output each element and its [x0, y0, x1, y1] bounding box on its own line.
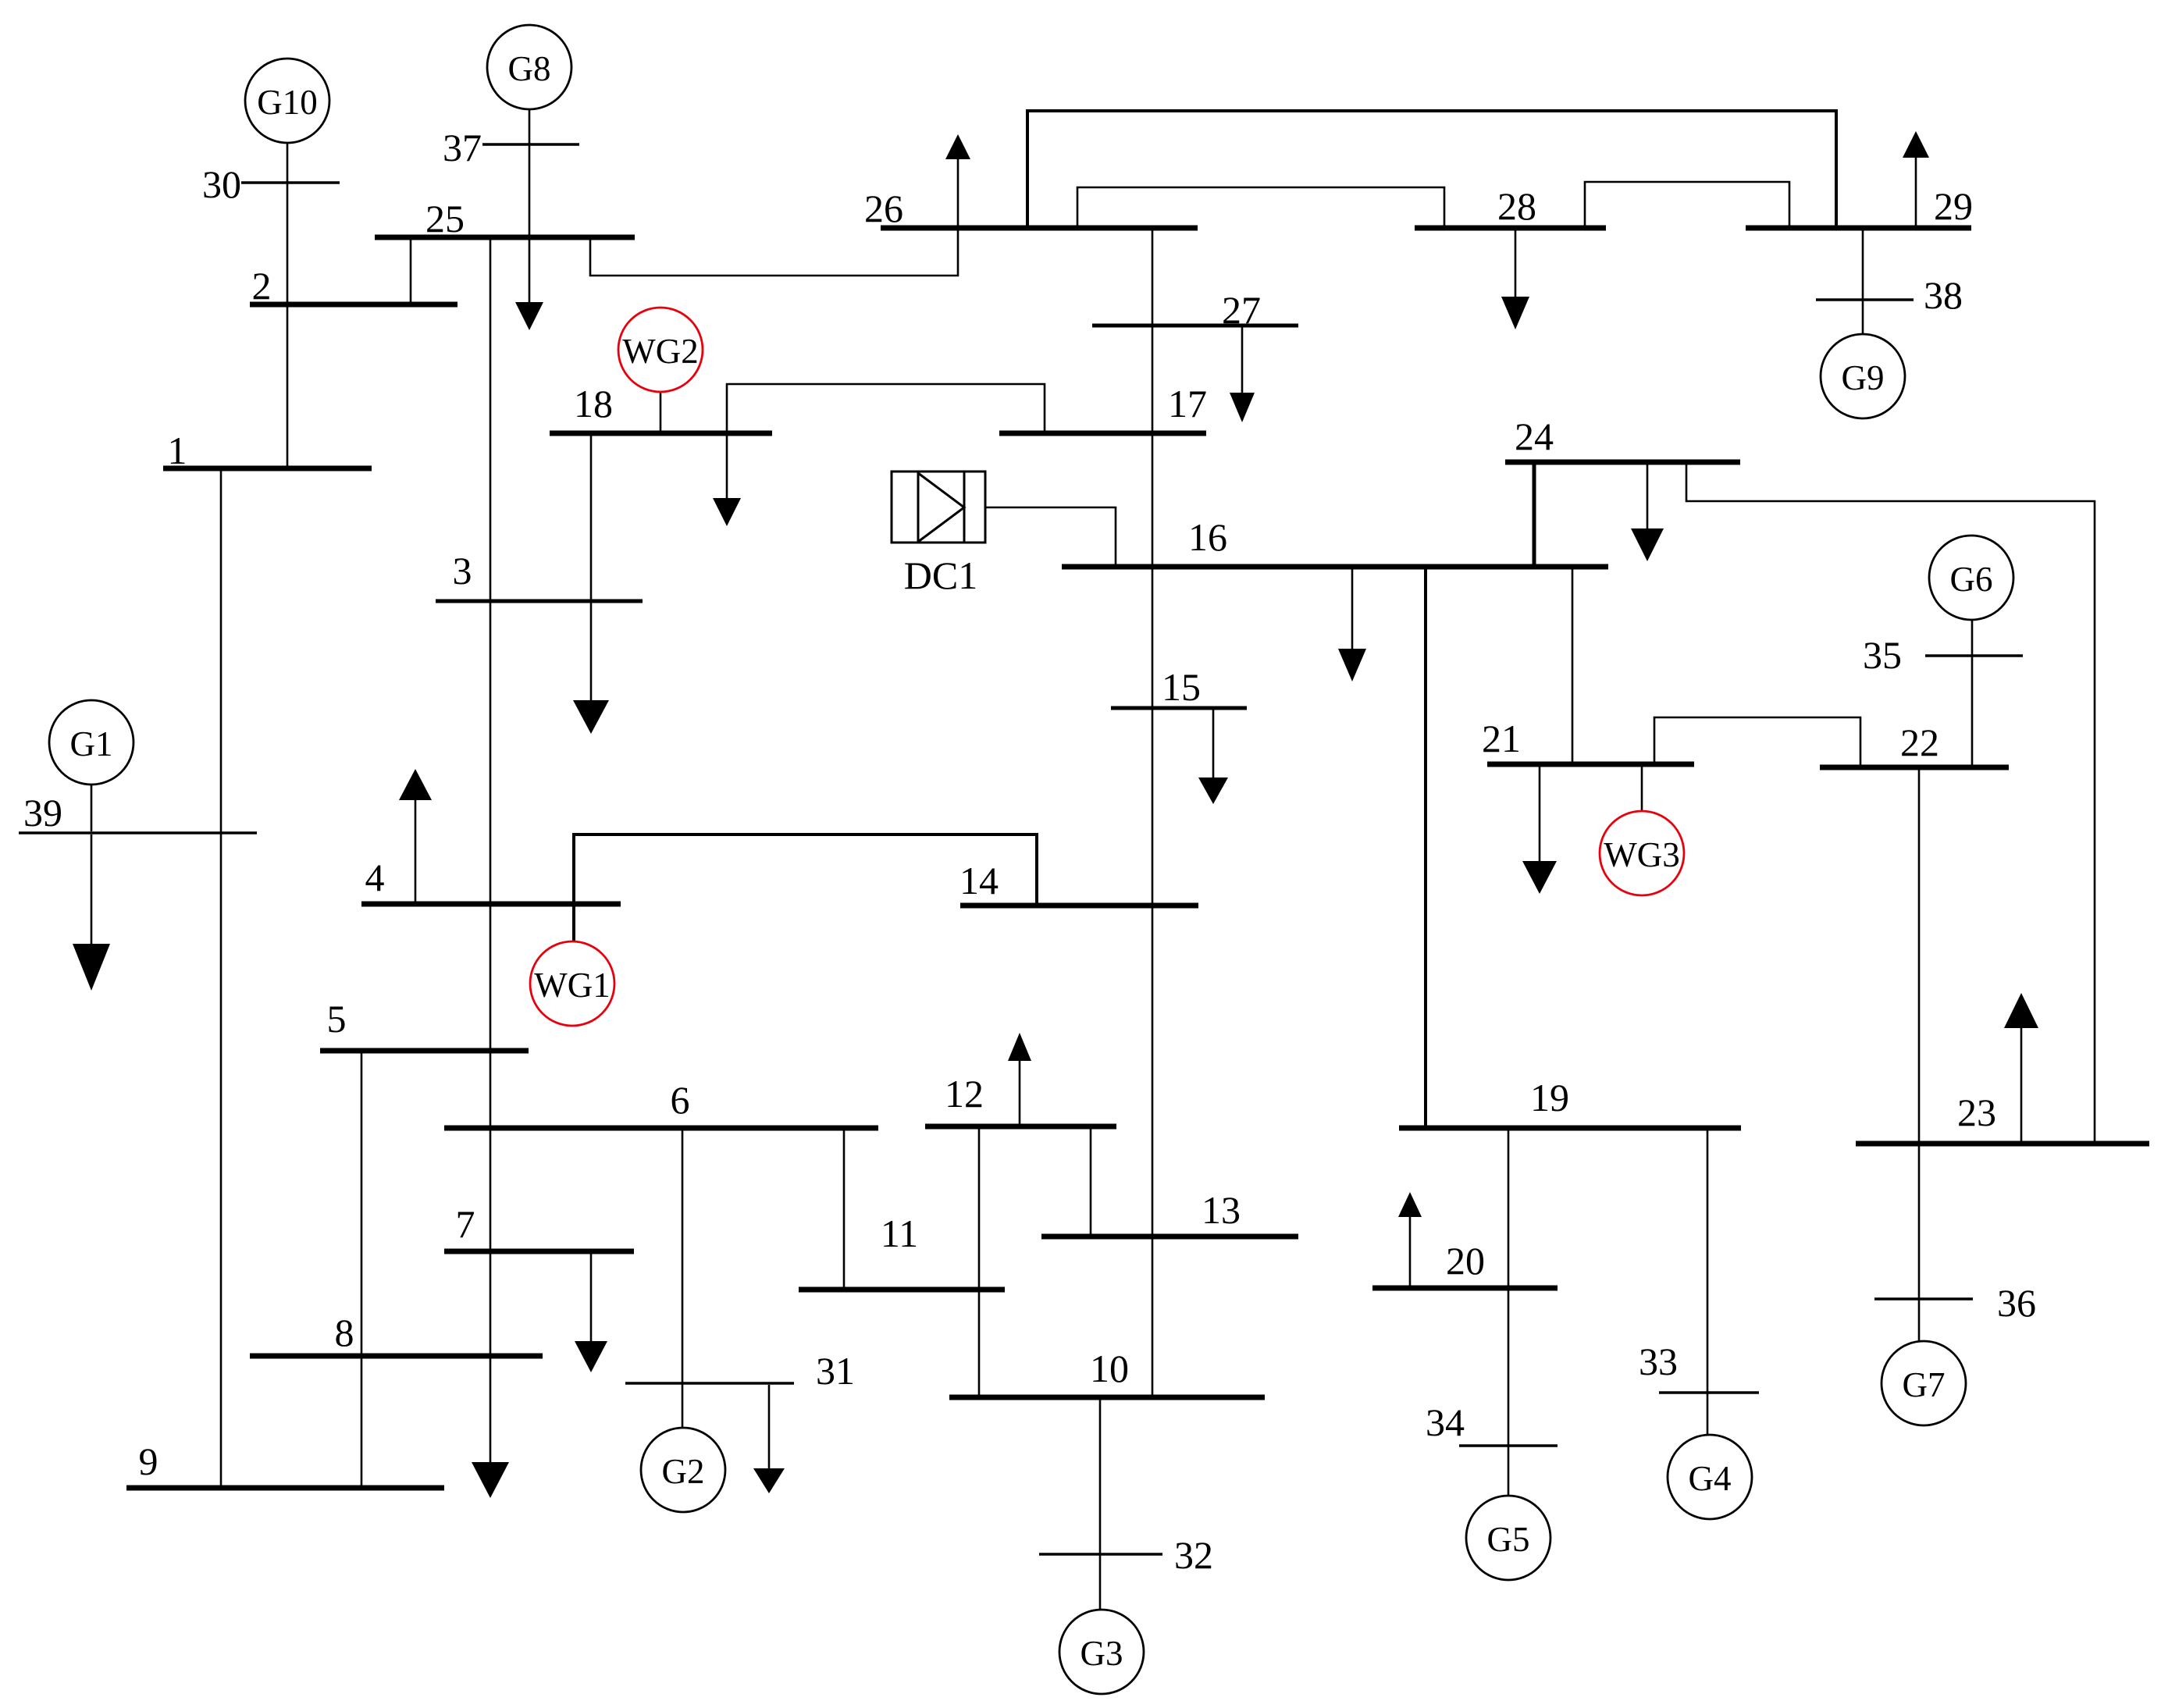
- label bus 33: [1639, 1340, 1678, 1383]
- svg-text:7: 7: [456, 1202, 475, 1246]
- label DC1: [904, 553, 977, 597]
- generator G2: [641, 1428, 725, 1512]
- svg-text:9: 9: [139, 1439, 158, 1483]
- generator G5: [1466, 1496, 1550, 1580]
- bus 38: [1816, 298, 1914, 301]
- generator G8: [487, 25, 571, 109]
- wire G6 to bus 35 and bus 22: [1971, 620, 1974, 766]
- bus 16: [1062, 564, 1608, 570]
- label bus 2: [252, 264, 272, 308]
- bus 20: [1372, 1286, 1558, 1291]
- svg-text:30: 30: [202, 162, 241, 206]
- bus 29: [1746, 226, 1971, 231]
- generator G10: [245, 59, 329, 143]
- load arrow at bus 4: [399, 769, 432, 902]
- svg-text:35: 35: [1863, 633, 1902, 677]
- label bus 6: [671, 1078, 690, 1122]
- svg-text:WG3: WG3: [1604, 835, 1679, 874]
- bus 22: [1820, 765, 2009, 770]
- load arrow at bus 23: [2004, 993, 2038, 1142]
- label bus 11: [881, 1212, 918, 1255]
- svg-text:27: 27: [1222, 288, 1261, 332]
- wire bus 21 to bus 22: [1654, 717, 1860, 766]
- load arrow at bus 3: [573, 603, 609, 734]
- bus 25: [375, 235, 635, 240]
- bus 13: [1041, 1234, 1298, 1240]
- svg-text:23: 23: [1957, 1091, 1996, 1134]
- load arrow at bus 12: [1008, 1033, 1031, 1125]
- wire bus 10 to bus 32 and G3: [1099, 1399, 1102, 1610]
- label bus 23: [1957, 1091, 1996, 1134]
- bus 37: [482, 143, 579, 146]
- label bus 17: [1168, 382, 1207, 425]
- generator G6: [1929, 536, 2013, 620]
- label bus 1: [168, 429, 187, 472]
- bus 12: [925, 1124, 1116, 1130]
- bus 21: [1487, 762, 1694, 767]
- svg-text:10: 10: [1090, 1347, 1129, 1390]
- load arrow at bus 7: [575, 1253, 607, 1372]
- svg-text:12: 12: [945, 1072, 984, 1116]
- svg-text:28: 28: [1497, 184, 1536, 228]
- wire bus 4 to bus 14: [574, 834, 1037, 904]
- load arrow at bus 16: [1338, 568, 1366, 681]
- label bus 16: [1188, 515, 1227, 559]
- svg-text:39: 39: [23, 791, 62, 834]
- label bus 37: [443, 126, 482, 169]
- bus 33: [1659, 1391, 1759, 1394]
- label bus 35: [1863, 633, 1902, 677]
- svg-text:G4: G4: [1689, 1459, 1732, 1498]
- label bus 13: [1202, 1188, 1241, 1232]
- label bus 30: [202, 162, 241, 206]
- svg-text:G1: G1: [70, 724, 113, 763]
- svg-text:29: 29: [1934, 184, 1973, 228]
- wire bus 28 to bus 29: [1585, 182, 1789, 226]
- label bus 14: [959, 859, 999, 902]
- svg-text:G7: G7: [1903, 1365, 1946, 1404]
- bus 14: [960, 903, 1198, 909]
- wire bus 16 to bus 19: [1424, 568, 1427, 1126]
- bus 4: [361, 902, 621, 907]
- label bus 26: [864, 187, 903, 230]
- label bus 21: [1482, 717, 1521, 760]
- svg-text:1: 1: [168, 429, 187, 472]
- svg-text:WG1: WG1: [534, 966, 610, 1005]
- label bus 39: [23, 791, 62, 834]
- wire bus 6 to bus 31 and G2: [682, 1130, 684, 1429]
- wire bus 19 through bus 20 and bus 34 to G5: [1508, 1130, 1510, 1496]
- svg-text:18: 18: [574, 382, 613, 425]
- bus 26: [881, 226, 1198, 231]
- bus 24: [1505, 460, 1740, 465]
- svg-text:21: 21: [1482, 717, 1521, 760]
- label bus 29: [1934, 184, 1973, 228]
- svg-text:34: 34: [1426, 1400, 1465, 1444]
- svg-text:WG2: WG2: [622, 332, 698, 371]
- label bus 10: [1090, 1347, 1129, 1390]
- bus 9: [126, 1486, 444, 1491]
- wire G10 to bus 30, bus 2, bus 1: [287, 143, 289, 468]
- load arrow at bus 25: [515, 239, 543, 330]
- bus 6: [444, 1126, 878, 1131]
- bus 30: [241, 181, 340, 184]
- wire G8 to bus 37 and bus 25: [529, 109, 531, 237]
- generator G9: [1821, 334, 1905, 418]
- svg-text:37: 37: [443, 126, 482, 169]
- svg-text:DC1: DC1: [904, 553, 977, 597]
- wire bus 25 to bus 26: [590, 230, 958, 276]
- svg-text:32: 32: [1174, 1533, 1213, 1577]
- svg-text:G5: G5: [1487, 1520, 1530, 1559]
- label bus 32: [1174, 1533, 1213, 1577]
- svg-text:5: 5: [327, 997, 347, 1041]
- load arrow at bus 26: [945, 134, 970, 226]
- bus 32: [1039, 1553, 1162, 1556]
- bus 1: [163, 466, 372, 471]
- label bus 18: [574, 382, 613, 425]
- bus 18: [550, 431, 772, 436]
- wire bus 19 to bus 33 and G4: [1707, 1130, 1709, 1435]
- bus 27: [1092, 324, 1298, 328]
- svg-text:4: 4: [365, 856, 385, 899]
- wire bus 12 through bus 11 to bus 10: [978, 1128, 981, 1396]
- load arrow at bus 21: [1522, 766, 1557, 894]
- bus 10: [949, 1395, 1265, 1400]
- bus 28: [1415, 226, 1606, 231]
- svg-text:25: 25: [425, 197, 465, 240]
- wire bus 5 to bus 6, bus 8, bus 9: [361, 1052, 363, 1486]
- bus 8: [250, 1354, 543, 1359]
- load arrow at bus 15: [1198, 710, 1228, 804]
- bus 11: [799, 1287, 1005, 1293]
- bus 15: [1111, 706, 1247, 710]
- generator G1: [49, 700, 134, 785]
- svg-text:G6: G6: [1950, 560, 1993, 599]
- label bus 3: [453, 549, 472, 592]
- svg-text:13: 13: [1202, 1188, 1241, 1232]
- bus 36: [1874, 1297, 1973, 1301]
- svg-text:8: 8: [335, 1311, 354, 1354]
- svg-text:22: 22: [1900, 721, 1939, 764]
- svg-text:15: 15: [1162, 665, 1201, 709]
- svg-text:6: 6: [671, 1078, 690, 1122]
- wind generator WG1: [530, 941, 614, 1026]
- bus 7: [444, 1249, 634, 1254]
- bus 23: [1856, 1141, 2149, 1147]
- label bus 7: [456, 1202, 475, 1246]
- load arrow at bus 8 (end of long line): [472, 1462, 509, 1498]
- bus 17: [999, 431, 1206, 436]
- wire WG2 to bus 18: [660, 392, 662, 432]
- svg-text:31: 31: [816, 1349, 855, 1393]
- wire bus 18 to bus 3: [590, 435, 593, 601]
- label bus 36: [1997, 1281, 2036, 1325]
- label bus 4: [365, 856, 385, 899]
- load arrow at bus 27: [1230, 327, 1255, 422]
- wire bus 26 to bus 29 (top route): [1027, 111, 1836, 226]
- wire WG1 to bus 4: [572, 906, 575, 941]
- bus 39: [19, 831, 257, 834]
- load arrow at bus 18: [713, 435, 741, 526]
- label bus 9: [139, 1439, 158, 1483]
- svg-text:G10: G10: [257, 83, 318, 122]
- svg-text:14: 14: [959, 859, 999, 902]
- svg-text:G2: G2: [662, 1452, 705, 1491]
- wind generator WG3: [1600, 811, 1684, 895]
- label bus 25: [425, 197, 465, 240]
- load arrow at bus 20: [1398, 1192, 1422, 1286]
- svg-text:38: 38: [1924, 273, 1963, 317]
- svg-text:11: 11: [881, 1212, 918, 1255]
- label bus 12: [945, 1072, 984, 1116]
- wire bus 29 to bus 38 and G9: [1862, 230, 1864, 334]
- svg-text:36: 36: [1997, 1281, 2036, 1325]
- wire bus 26 to bus 28: [1077, 187, 1444, 226]
- wire WG3 to bus 21: [1641, 766, 1643, 812]
- wire bus 25 long line down to load arrow above bus 9: [490, 239, 492, 1462]
- label bus 27: [1222, 288, 1261, 332]
- bus 34: [1459, 1444, 1558, 1447]
- label bus 20: [1446, 1239, 1485, 1283]
- svg-text:20: 20: [1446, 1239, 1485, 1283]
- load arrow at bus 31: [753, 1385, 785, 1493]
- load arrow at bus 28: [1501, 230, 1529, 329]
- bus 35: [1925, 654, 2023, 657]
- bus 2: [250, 302, 457, 308]
- wire G1 to bus 39: [91, 785, 93, 831]
- wire bus 24 to bus 16: [1533, 464, 1536, 565]
- bus 19: [1399, 1126, 1741, 1131]
- label bus 38: [1924, 273, 1963, 317]
- label bus 19: [1530, 1076, 1569, 1119]
- svg-text:G8: G8: [508, 49, 551, 88]
- wire bus 16 to bus 21: [1572, 568, 1574, 763]
- generator G7: [1882, 1341, 1966, 1425]
- wire bus 24 to bus 23 (right route): [1686, 464, 2095, 1142]
- wire bus 6 to bus 11: [843, 1130, 846, 1288]
- label bus 8: [335, 1311, 354, 1354]
- generator G3: [1059, 1610, 1144, 1694]
- svg-text:G9: G9: [1842, 358, 1885, 397]
- bus 3: [436, 600, 643, 603]
- svg-text:17: 17: [1168, 382, 1207, 425]
- wire bus 25 to bus 2: [410, 237, 412, 304]
- label bus 15: [1162, 665, 1201, 709]
- load arrow at bus 29: [1903, 131, 1929, 226]
- wire bus 1 to bus 39 and bus 9: [220, 470, 223, 1486]
- label bus 28: [1497, 184, 1536, 228]
- svg-text:3: 3: [453, 549, 472, 592]
- svg-text:26: 26: [864, 187, 903, 230]
- load arrow at bus 39: [73, 834, 110, 991]
- bus 31: [625, 1382, 794, 1385]
- label bus 24: [1515, 415, 1554, 458]
- DC converter DC1: [892, 471, 985, 543]
- svg-text:16: 16: [1188, 515, 1227, 559]
- wire bus 12 to bus 13: [1090, 1128, 1092, 1235]
- svg-text:24: 24: [1515, 415, 1554, 458]
- label bus 34: [1426, 1400, 1465, 1444]
- label bus 22: [1900, 721, 1939, 764]
- generator G4: [1668, 1435, 1752, 1519]
- label bus 5: [327, 997, 347, 1041]
- wire bus 26 down through buses 27,17,16,15,14,13 to bus 10: [1152, 230, 1154, 1396]
- wind generator WG2: [618, 308, 703, 392]
- wire DC1 to bus 16: [985, 507, 1116, 565]
- svg-text:33: 33: [1639, 1340, 1678, 1383]
- bus 5: [320, 1048, 529, 1054]
- wire bus 18 to bus 17: [727, 384, 1045, 432]
- wire bus 22 down through bus 23 and bus 36 to G7: [1918, 769, 1921, 1341]
- load arrow at bus 24: [1631, 464, 1664, 561]
- svg-text:19: 19: [1530, 1076, 1569, 1119]
- svg-text:G3: G3: [1080, 1634, 1123, 1673]
- label bus 31: [816, 1349, 855, 1393]
- svg-text:2: 2: [252, 264, 272, 308]
